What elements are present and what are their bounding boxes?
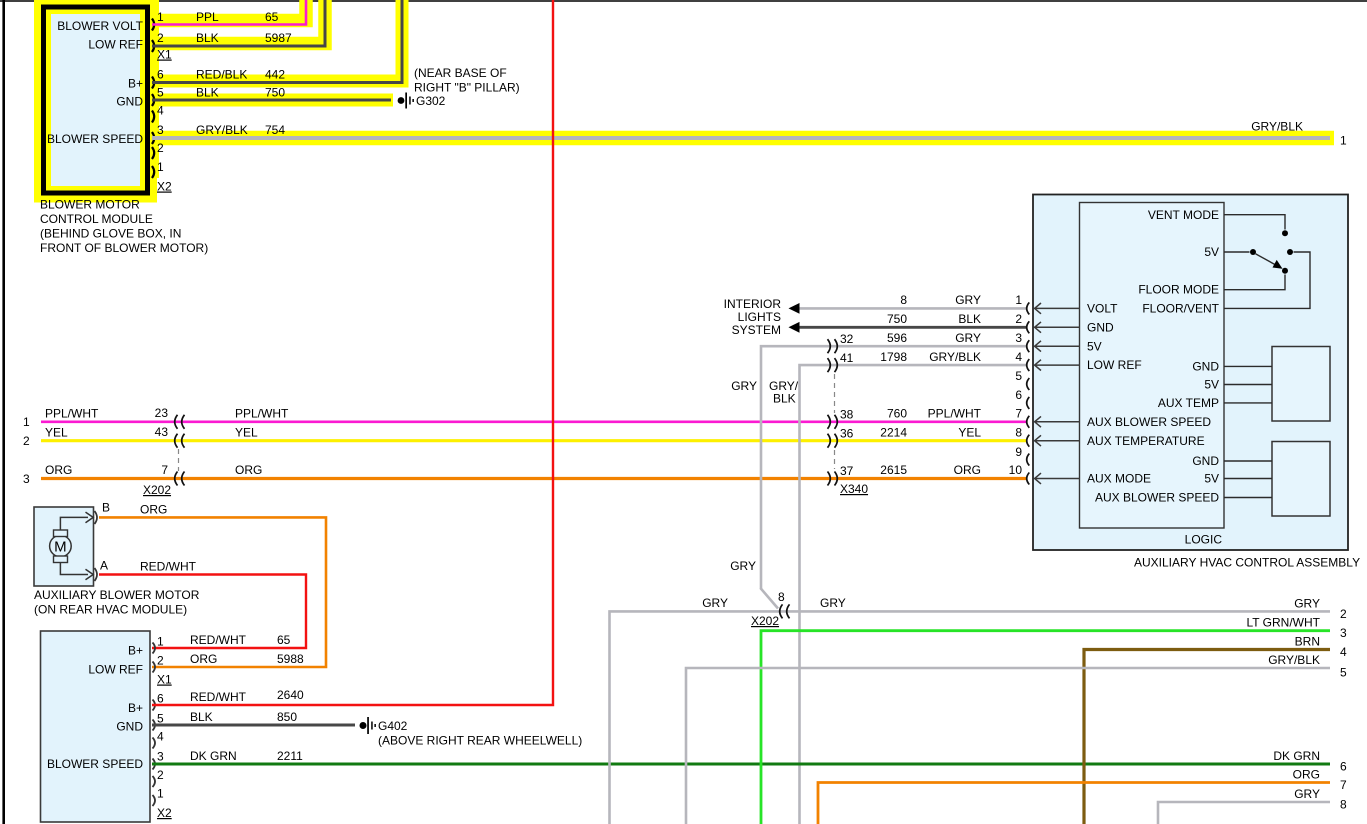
node: connector X340 arcs — [828, 339, 831, 353]
svg-text:65: 65 — [265, 10, 279, 24]
svg-text:5: 5 — [1340, 666, 1347, 680]
svg-text:37: 37 — [840, 464, 854, 478]
svg-text:6: 6 — [1340, 760, 1347, 774]
svg-text:GND: GND — [1192, 360, 1219, 374]
svg-text:442: 442 — [265, 68, 285, 82]
svg-text:GRY: GRY — [730, 559, 756, 573]
wire GRY 596 (HVAC pin 3, down to X202) — [761, 346, 1026, 589]
node: connector X202 arcs on wires 1,2,3 — [175, 415, 178, 429]
svg-text:LOW REF: LOW REF — [1087, 358, 1142, 372]
svg-text:1: 1 — [157, 635, 164, 649]
node: yellow highlight streak right of module border — [150, 0, 159, 178]
wire DK GRN 2211 (pin 3 X2 to right edge tick 6) — [152, 763, 1330, 766]
svg-text:5: 5 — [1015, 369, 1022, 383]
wire: yellow highlight on GRY/BLK 754 wire — [150, 131, 1334, 146]
wire: AUX TEMP lead to aux temp block — [1224, 402, 1272, 404]
node: connector X202 dashed link — [178, 449, 180, 471]
svg-text:32: 32 — [840, 332, 854, 346]
svg-text:B+: B+ — [128, 701, 143, 715]
svg-text:41: 41 — [840, 351, 854, 365]
svg-text:RED/WHT: RED/WHT — [190, 690, 247, 704]
svg-text:7: 7 — [1015, 407, 1022, 421]
svg-text:GRY/BLK: GRY/BLK — [1268, 653, 1320, 667]
svg-text:PPL/WHT: PPL/WHT — [235, 407, 289, 421]
svg-text:1: 1 — [157, 10, 164, 24]
wire: motor internal lead to pin B — [60, 517, 88, 530]
svg-text:5988: 5988 — [277, 652, 304, 666]
svg-text:ORG: ORG — [190, 652, 217, 666]
svg-text:BLOWER SPEED: BLOWER SPEED — [47, 757, 143, 771]
svg-text:YEL: YEL — [958, 425, 981, 439]
auxiliary blower motor box — [34, 507, 94, 586]
resistor block (aux temp sensor) — [1272, 347, 1330, 422]
wire GRY/BLK 754 (pin 3 X2) to right edge tick 1 — [152, 136, 1330, 140]
wire ORG (motor pin B to module pin 2 X1) — [99, 517, 326, 667]
svg-text:3: 3 — [1340, 626, 1347, 640]
svg-text:GND: GND — [116, 95, 143, 109]
wire: FLOOR MODE lead to switch contact — [1224, 275, 1285, 290]
svg-text:G302: G302 — [416, 94, 446, 108]
svg-text:5V: 5V — [1204, 245, 1219, 259]
svg-text:GRY: GRY — [955, 293, 981, 307]
svg-text:GND: GND — [116, 720, 143, 734]
svg-text:GRY: GRY — [955, 331, 981, 345]
svg-text:BLK: BLK — [190, 710, 213, 724]
svg-text:2211: 2211 — [277, 749, 303, 763]
svg-text:DK GRN: DK GRN — [1273, 749, 1320, 763]
node: connector X202 arcs (pin 8 splice) — [780, 604, 783, 618]
svg-text:PPL/WHT: PPL/WHT — [45, 407, 99, 421]
svg-text:3: 3 — [1015, 331, 1022, 345]
svg-text:RED/WHT: RED/WHT — [140, 560, 197, 574]
svg-text:4: 4 — [157, 104, 164, 118]
wire: VENT MODE lead to switch contact — [1224, 215, 1285, 230]
wire RED/BLK 442 (pin 6 X2) — [152, 0, 402, 83]
svg-text:FLOOR/VENT: FLOOR/VENT — [1142, 302, 1219, 316]
svg-text:36: 36 — [840, 426, 854, 440]
svg-text:ORG: ORG — [140, 503, 167, 517]
svg-text:5987: 5987 — [265, 31, 292, 45]
svg-text:YEL: YEL — [235, 425, 258, 439]
node: motor pin A arc — [95, 568, 98, 581]
node: motor pin B arc — [95, 511, 98, 524]
wire: 5V lead to switch common — [1224, 251, 1250, 253]
svg-text:X2: X2 — [157, 180, 172, 194]
wire: 5V lead to aux temp block — [1224, 384, 1272, 386]
svg-text:BLK: BLK — [773, 392, 796, 406]
svg-text:1: 1 — [157, 160, 164, 174]
svg-text:2: 2 — [157, 654, 164, 668]
resistor block (aux blower control) — [1272, 442, 1330, 517]
wire BRN (right edge tick 4, down) — [1084, 650, 1330, 824]
svg-text:B+: B+ — [128, 77, 143, 91]
svg-text:43: 43 — [155, 425, 169, 439]
svg-text:760: 760 — [887, 407, 907, 421]
svg-text:1: 1 — [1015, 293, 1022, 307]
wire BLK 750 (pin 5 X2) to G302 — [152, 99, 391, 102]
svg-text:GRY: GRY — [1294, 597, 1320, 611]
wire RED/WHT 2640 (pin 6 X2 up to top of page) — [152, 0, 553, 705]
svg-text:GRY/BLK: GRY/BLK — [196, 123, 248, 137]
svg-text:SYSTEM: SYSTEM — [732, 323, 781, 337]
svg-text:B+: B+ — [128, 644, 143, 658]
wire: motor internal lead to pin A — [60, 563, 88, 575]
svg-text:2: 2 — [157, 768, 164, 782]
svg-text:GRY/BLK: GRY/BLK — [1251, 120, 1303, 134]
svg-text:LOGIC: LOGIC — [1185, 533, 1223, 547]
wire RED/WHT (motor pin A to module pin 1 X1) — [99, 575, 306, 649]
svg-text:10: 10 — [1009, 463, 1023, 477]
svg-text:YEL: YEL — [45, 425, 68, 439]
ground G302 — [398, 97, 405, 104]
node: lower module connector pin arcs X1/X2 — [153, 643, 156, 654]
wire: yellow highlight on BLK 5987 wire — [150, 0, 325, 44]
svg-text:2: 2 — [1015, 312, 1022, 326]
wire: AUX BLOWER SPEED lead to aux blower block — [1224, 497, 1272, 499]
svg-text:(BEHIND GLOVE BOX, IN: (BEHIND GLOVE BOX, IN — [40, 227, 181, 241]
svg-text:RED/BLK: RED/BLK — [196, 68, 247, 82]
svg-text:AUX BLOWER SPEED: AUX BLOWER SPEED — [1087, 415, 1211, 429]
wire LT GRN/WHT (right edge tick 3, down) — [761, 631, 1330, 824]
wire ORG (right edge tick 7, down) — [818, 783, 1330, 824]
svg-text:RED/WHT: RED/WHT — [190, 633, 247, 647]
svg-text:X1: X1 — [157, 48, 172, 62]
svg-text:X2: X2 — [157, 806, 172, 820]
wire BLK 850 (pin 5 X2) to G402 — [152, 724, 355, 727]
svg-text:GRY/BLK: GRY/BLK — [929, 350, 981, 364]
wire: yellow highlight on BLK 750 ground wire — [150, 94, 393, 107]
svg-text:BLOWER VOLT: BLOWER VOLT — [57, 19, 143, 33]
svg-text:(ABOVE RIGHT REAR WHEELWELL): (ABOVE RIGHT REAR WHEELWELL) — [378, 734, 582, 748]
svg-text:AUX BLOWER SPEED: AUX BLOWER SPEED — [1095, 491, 1219, 505]
svg-text:596: 596 — [887, 331, 907, 345]
motor M symbol — [50, 535, 72, 557]
blower motor control module box — [51, 14, 140, 186]
svg-text:2615: 2615 — [880, 463, 907, 477]
svg-text:ORG: ORG — [45, 463, 72, 477]
wire YEL 2214 (left tick 2 to HVAC pin 8) — [41, 439, 1026, 442]
svg-text:AUX TEMPERATURE: AUX TEMPERATURE — [1087, 434, 1205, 448]
svg-text:CONTROL MODULE: CONTROL MODULE — [40, 212, 153, 226]
wire: FLOOR/VENT lead to switch contact — [1224, 252, 1310, 308]
svg-text:VOLT: VOLT — [1087, 302, 1118, 316]
svg-text:8: 8 — [778, 590, 785, 604]
svg-text:A: A — [100, 559, 108, 573]
svg-text:750: 750 — [265, 86, 285, 100]
auxiliary blower motor control module box — [41, 631, 151, 822]
svg-text:FRONT OF BLOWER MOTOR): FRONT OF BLOWER MOTOR) — [40, 241, 208, 255]
svg-text:X202: X202 — [751, 614, 779, 628]
svg-text:1: 1 — [1340, 134, 1347, 148]
svg-text:1: 1 — [157, 787, 164, 801]
svg-text:BLK: BLK — [958, 312, 981, 326]
svg-text:DK GRN: DK GRN — [190, 749, 237, 763]
svg-text:GRY: GRY — [1294, 787, 1320, 801]
svg-text:ORG: ORG — [235, 463, 262, 477]
svg-text:ORG: ORG — [954, 463, 981, 477]
svg-text:GRY: GRY — [820, 596, 846, 610]
wire: GND lead to aux temp block — [1224, 365, 1272, 367]
svg-text:5V: 5V — [1087, 339, 1102, 353]
svg-text:5: 5 — [157, 712, 164, 726]
svg-text:8: 8 — [1015, 425, 1022, 439]
svg-text:2: 2 — [157, 31, 164, 45]
svg-text:65: 65 — [277, 633, 291, 647]
svg-text:INTERIOR: INTERIOR — [724, 297, 782, 311]
svg-text:8: 8 — [1340, 798, 1347, 812]
svg-text:M: M — [54, 539, 67, 556]
svg-text:X1: X1 — [157, 673, 172, 687]
wire GRY (right edge tick 8, down) — [1158, 802, 1330, 824]
svg-text:X340: X340 — [840, 482, 868, 496]
svg-text:FLOOR MODE: FLOOR MODE — [1138, 283, 1219, 297]
svg-text:754: 754 — [265, 123, 285, 137]
svg-text:AUX MODE: AUX MODE — [1087, 472, 1151, 486]
svg-text:GND: GND — [1087, 320, 1114, 334]
wire: yellow highlight on RED/BLK 442 wire — [150, 0, 402, 81]
svg-text:AUX TEMP: AUX TEMP — [1158, 396, 1219, 410]
svg-text:LOW REF: LOW REF — [88, 663, 143, 677]
svg-text:BLOWER SPEED: BLOWER SPEED — [47, 132, 143, 146]
svg-text:6: 6 — [1015, 388, 1022, 402]
svg-text:23: 23 — [155, 406, 169, 420]
wire GRY 8 (interior lights to HVAC pin 1) — [795, 307, 1026, 310]
svg-text:1: 1 — [23, 415, 30, 429]
svg-text:4: 4 — [1015, 350, 1022, 364]
ground G402 — [360, 722, 367, 729]
svg-text:PPL/WHT: PPL/WHT — [928, 407, 982, 421]
svg-text:8: 8 — [900, 293, 907, 307]
svg-text:BLOWER MOTOR: BLOWER MOTOR — [40, 198, 140, 212]
node: yellow highlight around Blower Motor Control Module box — [44, 7, 148, 193]
svg-text:(ON REAR HVAC MODULE): (ON REAR HVAC MODULE) — [34, 603, 187, 617]
svg-text:VENT MODE: VENT MODE — [1148, 208, 1219, 222]
wire PPL/WHT 760 (left tick 1 to HVAC pin 7 via X202/X340) — [41, 420, 1026, 423]
svg-text:GRY: GRY — [702, 596, 728, 610]
svg-text:850: 850 — [277, 710, 297, 724]
svg-text:750: 750 — [887, 312, 907, 326]
svg-text:6: 6 — [157, 692, 164, 706]
svg-text:PPL: PPL — [196, 10, 219, 24]
wire BLK 5987 (pin 2 X1) — [152, 0, 325, 46]
svg-text:GRY: GRY — [731, 379, 757, 393]
wire ORG 2615 (left tick 3 to HVAC pin 10) — [41, 477, 1026, 480]
wire GRY/BLK (right edge tick 5, down) — [686, 668, 1330, 824]
svg-text:4: 4 — [1340, 645, 1347, 659]
svg-text:AUXILIARY HVAC CONTROL ASSEMBL: AUXILIARY HVAC CONTROL ASSEMBLY — [1134, 556, 1360, 570]
wire: GND lead to aux blower block — [1224, 460, 1272, 462]
wire PPL 65 (pin 1 X1) — [152, 0, 306, 25]
svg-text:5: 5 — [157, 86, 164, 100]
svg-text:7: 7 — [1340, 778, 1347, 792]
svg-text:(NEAR BASE OF: (NEAR BASE OF — [414, 66, 507, 80]
svg-text:X202: X202 — [143, 483, 171, 497]
wire: yellow highlight on PPL 65 wire — [150, 0, 306, 21]
wire: 5V lead to aux blower block — [1224, 478, 1272, 480]
wire: sheet top border line — [0, 0, 1367, 2]
switch wiper arm (arrow) — [1256, 254, 1279, 266]
svg-text:38: 38 — [840, 408, 854, 422]
svg-text:1798: 1798 — [880, 350, 907, 364]
svg-text:2214: 2214 — [880, 425, 907, 439]
svg-text:AUXILIARY BLOWER MOTOR: AUXILIARY BLOWER MOTOR — [34, 588, 200, 602]
svg-text:9: 9 — [1015, 445, 1022, 459]
wire GRY (X202 pin 8 splice, down-left and to right edge tick 2) — [610, 611, 1331, 824]
svg-text:BLK: BLK — [196, 86, 219, 100]
svg-text:RIGHT "B" PILLAR): RIGHT "B" PILLAR) — [414, 81, 520, 95]
logic block (inner box) — [1080, 203, 1225, 529]
svg-text:4: 4 — [157, 730, 164, 744]
svg-text:2: 2 — [157, 141, 164, 155]
svg-text:7: 7 — [161, 463, 168, 477]
auxiliary HVAC control assembly outer box — [1033, 195, 1348, 551]
svg-text:3: 3 — [23, 472, 30, 486]
svg-text:3: 3 — [157, 750, 164, 764]
svg-text:LIGHTS: LIGHTS — [738, 310, 781, 324]
svg-text:5V: 5V — [1204, 378, 1219, 392]
svg-text:2: 2 — [1340, 607, 1347, 621]
svg-text:BLK: BLK — [196, 31, 219, 45]
svg-text:5V: 5V — [1204, 472, 1219, 486]
wire BLK 750 (interior lights to HVAC pin 2) — [795, 326, 1026, 329]
svg-text:G402: G402 — [378, 719, 408, 733]
node: HVAC internal input arrows — [1035, 307, 1080, 309]
svg-text:B: B — [102, 501, 110, 515]
node: HVAC connector pin arcs (pins 1-10) — [1027, 302, 1030, 314]
node: connector X340 dashed links — [834, 374, 836, 413]
svg-text:GND: GND — [1192, 454, 1219, 468]
svg-text:ORG: ORG — [1293, 768, 1320, 782]
svg-text:LT GRN/WHT: LT GRN/WHT — [1246, 616, 1320, 630]
wire: sheet left border line — [2, 0, 5, 824]
svg-text:2: 2 — [23, 434, 30, 448]
svg-text:2640: 2640 — [277, 688, 304, 702]
svg-text:3: 3 — [157, 123, 164, 137]
svg-text:6: 6 — [157, 68, 164, 82]
svg-text:LOW REF: LOW REF — [88, 38, 143, 52]
svg-text:BRN: BRN — [1295, 635, 1320, 649]
node: top module connector pin arcs X1/X2 — [152, 19, 154, 31]
wire GRY/BLK 1798 (HVAC pin 4, down across page) — [800, 365, 1027, 824]
